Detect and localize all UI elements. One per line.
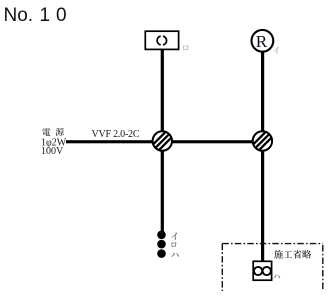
switch ロ [157, 240, 166, 249]
ceiling rosette box (angular hook ceiling) ロ [145, 31, 178, 49]
switch ハ [157, 249, 166, 258]
dashed construction-omitted boundary box [222, 244, 322, 291]
svg-text:VVF 2.0-2C: VVF 2.0-2C [92, 129, 140, 140]
wire: power feed horizontal to left joint box [66, 140, 163, 143]
joint box (right, hatched circle) [248, 121, 276, 161]
label ハ (light) [273, 275, 280, 279]
svg-text:100V: 100V [41, 146, 64, 157]
svg-text:R: R [256, 32, 268, 51]
power source label 電源 1φ2W 100V [41, 128, 67, 157]
label イ (lamp) [273, 47, 279, 54]
fluorescent light (in omitted area) ハ [253, 261, 271, 280]
switch イ [157, 231, 166, 240]
joint box (left, hatched circle) [148, 121, 176, 161]
wire: vertical right joint box down to light in omitted area [261, 149, 264, 262]
wire: horizontal between joint boxes [163, 140, 263, 143]
svg-text:1: 1 [40, 5, 51, 26]
wire: vertical ceiling box to left joint box [161, 48, 164, 133]
switch labels イ ロ ハ [171, 233, 179, 258]
wire: vertical lamp R to right joint box [261, 51, 264, 133]
cable label VVF 2.0-2C [92, 129, 140, 140]
wire: vertical left joint box down to switches [161, 149, 164, 235]
label ロ (ceiling) [183, 45, 189, 50]
title No.10 [4, 5, 67, 26]
svg-text:No.: No. [4, 5, 34, 26]
lamp receptacle R イ [252, 30, 274, 52]
svg-text:0: 0 [56, 5, 67, 26]
label 施工省略 [274, 250, 311, 259]
